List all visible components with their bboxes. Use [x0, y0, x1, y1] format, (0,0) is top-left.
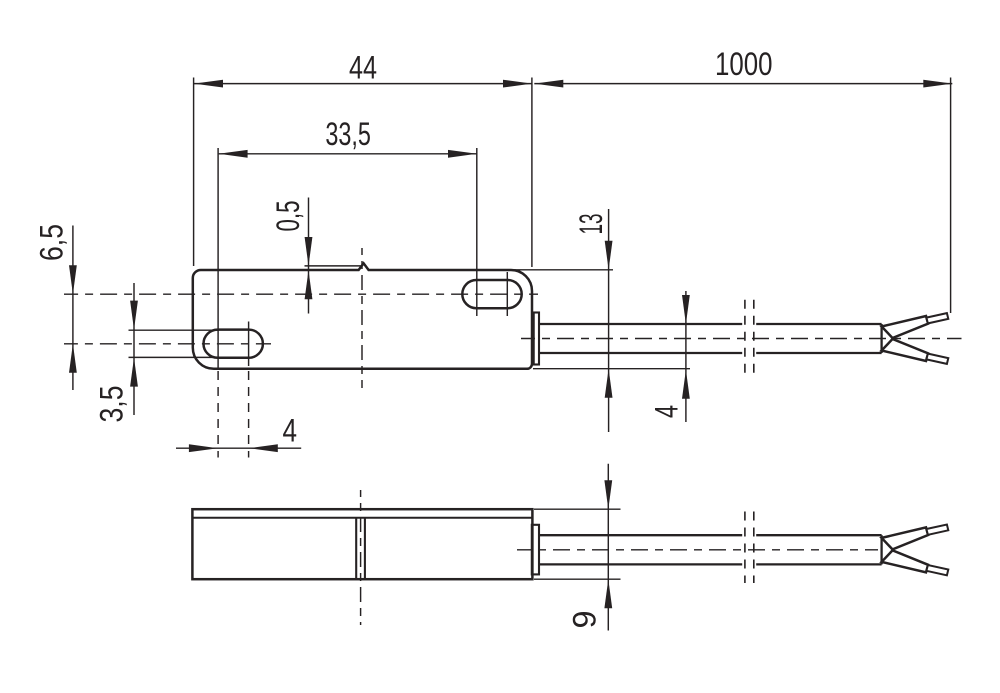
- svg-text:3,5: 3,5: [94, 386, 130, 423]
- cable gland ferrule (top view): [534, 313, 539, 365]
- dimension 33.5: dimension line with arrows: [219, 153, 477, 155]
- sensor body outline (side view): [192, 509, 532, 579]
- cable centerline (top view): [521, 338, 962, 340]
- dimension 0.5: dimension line and arrows: [308, 198, 310, 314]
- cable outline (top view): [539, 323, 742, 325]
- housing joint double line (side view): [355, 518, 357, 579]
- svg-text:44: 44: [349, 50, 377, 86]
- sensor body outline (top view): [193, 263, 532, 369]
- left slot right-arc center mark: [248, 322, 250, 367]
- left mounting slot: [204, 330, 263, 358]
- dimension 3.5: dimension line and arrows: [133, 283, 135, 415]
- upper wire stripped conductor: [926, 313, 948, 323]
- 0.5 step extension line on top edge: [305, 265, 361, 267]
- svg-text:9: 9: [567, 611, 603, 629]
- dimension 1000: dimension line with arrows: [534, 83, 952, 85]
- cable outline (side view): [539, 534, 742, 536]
- upper wire insulation: [882, 316, 929, 338]
- upper wire stripped conductor: [926, 525, 948, 535]
- dimension 4 (slot length): dimension line and arrows: [176, 447, 301, 449]
- svg-text:33,5: 33,5: [325, 116, 371, 152]
- cable centerline (side view): [517, 549, 878, 551]
- dimension 9: dimension line and arrows: [607, 464, 609, 631]
- right slot right-arc center mark: [506, 272, 508, 316]
- dimension 4 (slot length): dashed projection lines: [217, 371, 219, 458]
- upper wire insulation: [882, 527, 929, 549]
- upper centerline (through right slot): [64, 293, 538, 295]
- lower centerline (through left slot): [64, 343, 271, 345]
- body vertical centerline (side view): [360, 490, 362, 625]
- cable break marks (side view): [744, 512, 746, 584]
- right mounting slot: [462, 280, 521, 308]
- lower wire insulation: [882, 550, 929, 572]
- dimension 1000: right extension line: [950, 78, 952, 314]
- svg-text:4: 4: [283, 413, 298, 449]
- right slot left-arc center mark / 33.5 extension line: [476, 148, 478, 316]
- cable break marks (top view): [744, 300, 746, 375]
- svg-text:13: 13: [573, 214, 609, 235]
- body vertical centerline (top view): [361, 248, 363, 388]
- dimension 3.5: extension lines from slot: [129, 329, 220, 331]
- svg-text:0,5: 0,5: [270, 201, 306, 232]
- svg-text:4: 4: [649, 405, 685, 418]
- dimension 44: extension lines: [193, 78, 195, 267]
- lower wire stripped conductor: [926, 565, 948, 575]
- dimension 6.5: dimension line and arrows: [72, 226, 74, 391]
- lower wire stripped conductor: [926, 354, 948, 364]
- dimension 44: dimension line with arrows: [194, 83, 532, 85]
- cable gland ferrule (side view): [532, 525, 539, 575]
- dimension 4 (cable diameter): dimension line and arrows: [685, 291, 687, 422]
- lower wire insulation: [882, 339, 929, 361]
- svg-text:6,5: 6,5: [34, 224, 70, 261]
- left slot left-arc center mark / 33.5 extension line: [217, 148, 219, 370]
- cover seam line (side view): [192, 517, 532, 519]
- dimension 9: extension lines: [534, 508, 621, 510]
- svg-text:1000: 1000: [715, 46, 773, 82]
- dimension 13: extension lines: [512, 269, 613, 271]
- dimension 13: dimension line and arrows: [608, 209, 610, 432]
